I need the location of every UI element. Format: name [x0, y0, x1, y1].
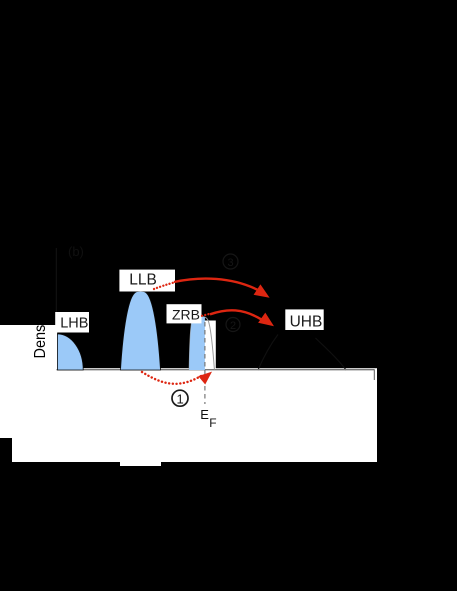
arrow 3 bottom dotted curve	[142, 372, 202, 384]
white tab (energy label box bottom)	[120, 461, 161, 466]
LLB band (blue dome)	[121, 291, 161, 370]
LLB label box	[119, 270, 175, 292]
LHB band (blue quarter dome)	[57, 334, 83, 370]
ZRB label box	[167, 304, 202, 323]
UHB label box	[285, 309, 323, 330]
x axis line	[57, 369, 375, 371]
ZRB band blue fill (left of E_F)	[189, 317, 205, 370]
svg-text:UHB: UHB	[290, 313, 323, 330]
circled 2 (faint)	[226, 318, 240, 332]
ZRB band outline (full dome, gray)	[189, 317, 214, 370]
arrow 1 solid curve	[174, 279, 260, 291]
arrow 3 head	[198, 372, 212, 385]
svg-text:F: F	[209, 416, 216, 430]
svg-text:LHB: LHB	[60, 316, 88, 332]
arrow 1 LLB to UHB, dotted start	[154, 282, 175, 289]
white box behind ZRB right half	[204, 321, 216, 369]
arrow 2 ZRB to UHB, dotted start	[202, 314, 211, 316]
circled 1	[172, 390, 188, 406]
svg-text:2: 2	[230, 320, 236, 332]
arrow 2 solid curve	[210, 310, 262, 319]
svg-text:1: 1	[177, 392, 184, 407]
svg-text:Density of states: Density of states	[32, 252, 49, 359]
svg-text:E: E	[200, 407, 209, 422]
arrow 2 head	[258, 313, 274, 327]
svg-text:LLB: LLB	[129, 271, 157, 288]
white panel below axis	[12, 368, 377, 462]
svg-text:3: 3	[228, 257, 234, 269]
circled 3 (faint)	[223, 254, 238, 269]
UHB band outline (faint)	[258, 335, 278, 371]
y axis spine	[55, 248, 57, 324]
svg-text:(b): (b)	[68, 244, 84, 259]
right spine stub	[373, 370, 375, 381]
LHB label box	[55, 312, 89, 333]
white panel left (y-label background)	[0, 325, 57, 438]
E_F dashed line	[204, 322, 206, 404]
arrow 1 head	[254, 284, 270, 297]
svg-text:ZRB: ZRB	[172, 307, 200, 323]
